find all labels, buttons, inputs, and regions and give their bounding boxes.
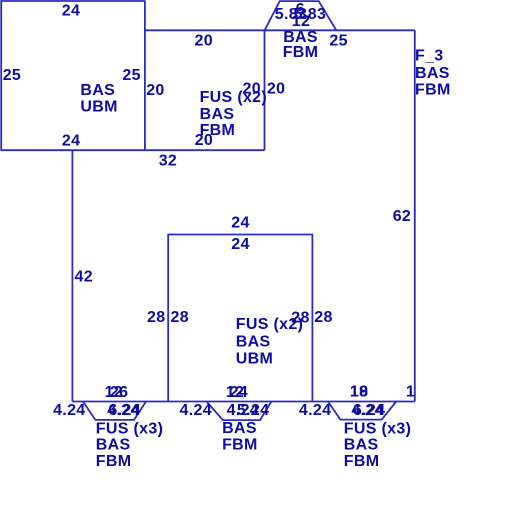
svg-text:28: 28 <box>147 309 165 326</box>
wire divider x264 <box>264 30 266 150</box>
svg-text:4.24: 4.24 <box>299 402 331 419</box>
svg-text:1: 1 <box>406 384 415 401</box>
svg-text:20: 20 <box>243 81 261 98</box>
svg-text:FUS (x2): FUS (x2) <box>236 316 303 333</box>
wire rect1 left <box>0 1 2 151</box>
piece inner rect (FUS x2 BAS UBM) <box>168 235 312 402</box>
piece rect1 outline (BAS UBM 24x25) <box>1 1 415 421</box>
svg-text:19: 19 <box>350 384 368 401</box>
svg-text:24: 24 <box>231 236 249 253</box>
svg-text:26: 26 <box>110 384 128 401</box>
svg-text:4.24: 4.24 <box>53 402 85 419</box>
svg-text:FBM: FBM <box>96 453 132 470</box>
svg-text:FUS (x3): FUS (x3) <box>96 420 163 437</box>
piece trapezoid bottom A <box>83 402 146 420</box>
svg-text:20: 20 <box>267 81 285 98</box>
svg-text:12: 12 <box>292 13 310 30</box>
svg-text:24: 24 <box>230 384 248 401</box>
svg-text:UBM: UBM <box>236 351 273 368</box>
svg-text:FBM: FBM <box>344 453 380 470</box>
svg-text:25: 25 <box>3 67 21 84</box>
svg-text:25: 25 <box>122 67 140 84</box>
svg-text:BAS: BAS <box>344 437 379 454</box>
piece trapezoid top <box>265 1 337 30</box>
wire bottom edge <box>72 401 414 403</box>
wire top y30 <box>145 29 415 31</box>
svg-text:20: 20 <box>195 132 213 149</box>
svg-text:4.24: 4.24 <box>180 402 212 419</box>
piece trapezoid bottom C <box>328 402 396 420</box>
svg-text:24: 24 <box>62 132 80 149</box>
wire divider x145 <box>144 1 146 151</box>
svg-text:BAS: BAS <box>415 65 450 82</box>
svg-text:20: 20 <box>146 82 164 99</box>
wire long bottom y150 <box>1 149 265 151</box>
svg-text:FUS (x3): FUS (x3) <box>344 420 411 437</box>
wire left tall edge <box>71 150 73 401</box>
svg-text:20: 20 <box>195 33 213 50</box>
svg-text:25: 25 <box>329 32 347 49</box>
wire rect1 top <box>1 0 145 2</box>
piece trapezoid bottom B <box>207 402 272 421</box>
svg-text:FBM: FBM <box>222 437 258 454</box>
svg-text:BAS: BAS <box>222 420 257 437</box>
svg-text:F_3: F_3 <box>415 48 444 65</box>
svg-text:32: 32 <box>159 152 177 169</box>
svg-text:BAS: BAS <box>236 333 271 350</box>
wire right edge <box>414 30 416 401</box>
svg-text:28: 28 <box>314 309 332 326</box>
svg-text:UBM: UBM <box>80 98 117 115</box>
svg-text:6.24: 6.24 <box>353 402 385 419</box>
svg-text:24: 24 <box>62 2 80 19</box>
svg-text:24: 24 <box>231 215 249 232</box>
svg-text:BAS: BAS <box>200 106 235 123</box>
svg-text:FBM: FBM <box>415 82 451 99</box>
svg-text:42: 42 <box>75 268 93 285</box>
svg-text:6.24: 6.24 <box>108 402 140 419</box>
svg-text:28: 28 <box>171 309 189 326</box>
svg-text:BAS: BAS <box>96 437 131 454</box>
svg-text:5.24: 5.24 <box>237 402 269 419</box>
svg-text:62: 62 <box>393 208 411 225</box>
svg-text:FBM: FBM <box>283 44 319 61</box>
svg-text:BAS: BAS <box>80 82 115 99</box>
